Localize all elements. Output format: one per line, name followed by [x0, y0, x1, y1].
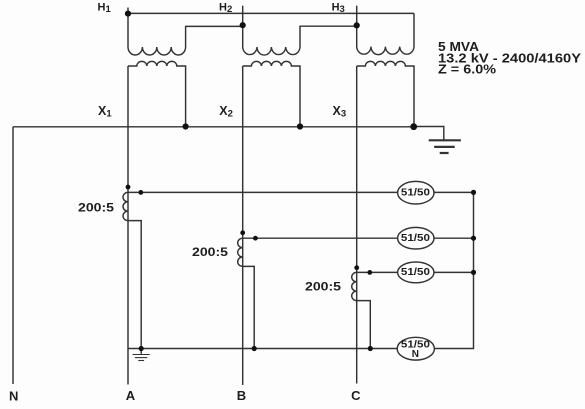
- svg-text:H3: H3: [332, 2, 345, 15]
- svg-text:H1: H1: [98, 2, 112, 15]
- svg-text:51/50: 51/50: [401, 233, 431, 244]
- svg-text:A: A: [126, 388, 136, 403]
- svg-text:200:5: 200:5: [192, 247, 229, 259]
- svg-text:Z = 6.0%: Z = 6.0%: [438, 63, 496, 77]
- svg-text:200:5: 200:5: [78, 203, 115, 215]
- svg-text:H2: H2: [219, 2, 232, 15]
- svg-text:51/50: 51/50: [401, 267, 431, 278]
- svg-text:B: B: [237, 388, 246, 403]
- svg-text:C: C: [351, 388, 361, 403]
- svg-text:N: N: [412, 349, 419, 360]
- svg-text:N: N: [9, 388, 18, 403]
- svg-text:51/50: 51/50: [401, 187, 431, 198]
- svg-text:200:5: 200:5: [305, 282, 342, 294]
